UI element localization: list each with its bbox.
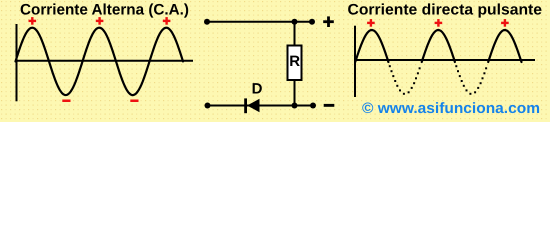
red plus 3 (right hump 3) <box>501 22 509 24</box>
right graph vertical axis <box>354 26 356 97</box>
left graph horizontal axis <box>16 60 194 62</box>
svg-text:© www.asifunciona.com: © www.asifunciona.com <box>362 100 540 117</box>
resistor R body <box>288 46 302 81</box>
diode D cathode bar <box>244 98 247 113</box>
pulsating DC hump 1 <box>355 30 388 62</box>
svg-text:D: D <box>252 80 263 97</box>
dotted suppressed half-cycles <box>389 65 487 95</box>
pulsating DC hump 3 <box>488 30 521 62</box>
red plus 2 (left wave peak 2) <box>96 20 104 22</box>
red plus 1 (left wave peak 1) <box>29 20 37 22</box>
node: top junction dot <box>292 19 298 25</box>
red minus 2 (left wave trough 2) <box>130 100 138 103</box>
node: top right end dot <box>309 19 315 25</box>
node: bottom right end dot <box>310 103 316 109</box>
right graph horizontal axis <box>354 59 535 61</box>
AC sine wave <box>16 28 184 95</box>
node: bottom left terminal dot <box>205 103 211 109</box>
node: top left terminal dot <box>204 19 210 25</box>
red plus 3 (left wave peak 3) <box>163 20 171 22</box>
diode D triangle <box>247 99 260 112</box>
svg-text:R: R <box>289 53 300 70</box>
minus terminal symbol (black) <box>324 104 335 107</box>
node: bottom junction dot <box>292 103 298 109</box>
wire: resistor bottom lead <box>294 80 296 106</box>
red plus 1 (right hump 1) <box>367 22 375 24</box>
svg-text:Corriente directa pulsante: Corriente directa pulsante <box>348 1 543 18</box>
svg-text:Corriente Alterna (C.A.): Corriente Alterna (C.A.) <box>20 1 189 18</box>
plus terminal symbol (black) <box>323 20 334 23</box>
left graph vertical axis <box>16 24 18 101</box>
pulsating DC hump 2 <box>422 30 455 62</box>
wire: bottom conductor <box>208 105 314 107</box>
red minus 1 (left wave trough 1) <box>62 100 70 103</box>
red plus 2 (right hump 2) <box>435 22 443 24</box>
wire: top conductor <box>207 21 312 23</box>
wire: resistor top lead <box>294 22 296 46</box>
background texture <box>0 0 550 122</box>
